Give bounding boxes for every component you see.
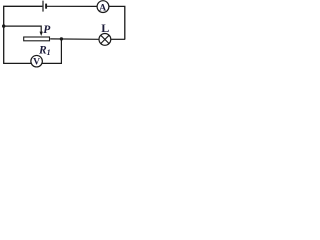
wire bottom: voltmeter to left rail <box>3 62 32 64</box>
svg-text:A: A <box>99 3 106 13</box>
wire left rail + top wire to battery <box>4 6 43 63</box>
wire ammeter to top-right corner and right rail <box>109 6 125 39</box>
battery cell short plate <box>45 4 47 9</box>
wire rheostat to lamp <box>50 38 99 40</box>
svg-text:L: L <box>101 21 109 35</box>
svg-text:R1: R1 <box>38 45 51 57</box>
svg-text:V: V <box>33 58 40 68</box>
ammeter U: circle <box>97 1 109 13</box>
wire battery to ammeter <box>47 5 97 7</box>
rheostat R1: box <box>24 37 50 41</box>
wire slider branch: left rail to corner, down to arrow <box>4 26 42 32</box>
battery cell long plate <box>42 1 44 12</box>
slider arrowhead P <box>40 32 43 36</box>
lamp L: circle <box>99 34 111 46</box>
voltmeter U: circle <box>31 55 43 66</box>
wire junction down to voltmeter branch <box>42 39 62 64</box>
svg-text:P: P <box>43 24 51 36</box>
junction dot on left rail <box>2 24 5 27</box>
wire lamp to right rail <box>111 38 125 40</box>
junction dot node between rheostat and lamp <box>60 37 63 40</box>
lamp X cross <box>101 35 109 43</box>
